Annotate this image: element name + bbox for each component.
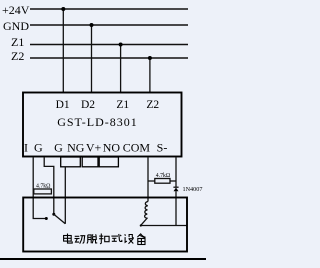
svg-text:V+: V+ [86,140,102,154]
svg-text:Z2: Z2 [11,49,24,63]
svg-text:GND: GND [3,19,29,33]
svg-text:Z1: Z1 [116,99,129,111]
svg-text:S-: S- [157,140,168,154]
svg-text:Z1: Z1 [11,35,24,49]
svg-text:D2: D2 [81,99,95,111]
svg-text:G: G [34,140,43,154]
svg-text:D1: D1 [56,99,70,111]
svg-text:+24V: +24V [2,3,30,17]
svg-text:I: I [24,140,28,154]
svg-text:G: G [54,140,63,154]
svg-text:GST-LD-8301: GST-LD-8301 [57,115,138,129]
svg-text:4.7kΩ: 4.7kΩ [36,184,51,190]
svg-text:NO: NO [103,140,121,154]
svg-text:4.7kΩ: 4.7kΩ [156,173,171,179]
svg-text:NG: NG [67,140,85,154]
svg-text:Z2: Z2 [146,99,159,111]
svg-text:COM: COM [123,140,151,154]
svg-text:1N4007: 1N4007 [183,186,203,193]
